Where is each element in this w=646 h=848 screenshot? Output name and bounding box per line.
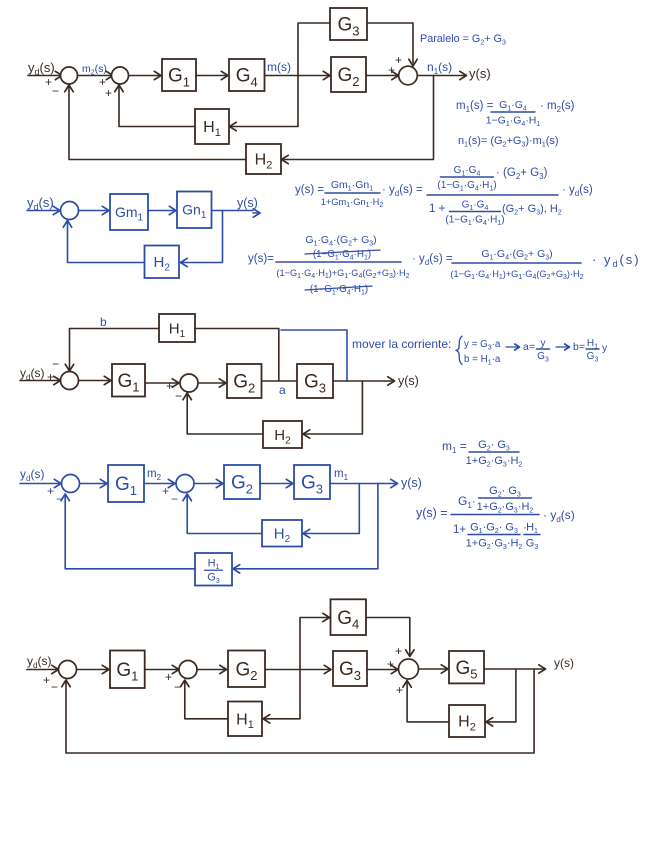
svg-text:Paralelo = G2​+ G3​: Paralelo = G2​+ G3​ [420, 33, 506, 47]
svg-text:−: − [51, 680, 58, 694]
svg-text:y: y [541, 338, 546, 349]
svg-text:y(s): y(s) [401, 476, 422, 490]
svg-text:−: − [52, 84, 59, 98]
svg-text:n1​(s): n1​(s) [427, 60, 452, 76]
svg-text:−: − [171, 492, 178, 506]
svg-text:a: a [279, 383, 286, 397]
svg-text:+: + [105, 86, 112, 100]
svg-text:+: + [47, 484, 54, 498]
svg-text:+: + [396, 683, 403, 697]
svg-text:mover la corriente:: mover la corriente: [352, 337, 451, 351]
svg-text:· yd​(s) =: · yd​(s) = [412, 253, 453, 267]
svg-text:1+: 1+ [453, 524, 466, 536]
svg-text:a=: a= [523, 341, 535, 353]
svg-text:G2​· G3​: G2​· G3​ [489, 485, 521, 499]
svg-text:y(s) =: y(s) = [416, 506, 448, 520]
svg-text:m(s): m(s) [267, 60, 291, 74]
svg-text:+: + [395, 644, 402, 658]
svg-text:G1​·G4​: G1​·G4​ [454, 165, 481, 177]
svg-text:b=: b= [573, 341, 585, 353]
svg-text:+: + [166, 379, 173, 393]
svg-text:m1​(s) =: m1​(s) = [456, 100, 494, 114]
svg-text:· yd​(s) =: · yd​(s) = [382, 184, 423, 198]
svg-text:+: + [387, 657, 394, 671]
svg-text:y(s) =: y(s) = [295, 184, 324, 196]
svg-text:G1​·G2​· G3​: G1​·G2​· G3​ [470, 522, 518, 536]
svg-text:(G2​+ G3​), H2​: (G2​+ G3​), H2​ [502, 203, 562, 217]
svg-text:yd​(s): yd​(s) [27, 195, 54, 212]
svg-text:G1​·G4​: G1​·G4​ [499, 99, 527, 113]
svg-text:b = H1​·a: b = H1​·a [464, 354, 501, 366]
svg-text:+: + [43, 673, 50, 687]
svg-text:1+G2​·G3​·H2​: 1+G2​·G3​·H2​ [466, 455, 523, 469]
svg-text:1 +: 1 + [429, 203, 446, 215]
svg-text:y(s): y(s) [554, 656, 574, 670]
svg-text:Gm1​·Gn1​: Gm1​·Gn1​ [331, 179, 373, 193]
svg-text:yd​(s): yd​(s) [27, 654, 51, 670]
svg-text:(1−G1​·G4​·H1​): (1−G1​·G4​·H1​) [445, 215, 504, 227]
svg-text:y(s): y(s) [398, 374, 419, 388]
svg-text:(1−G1​·G4​·H1​): (1−G1​·G4​·H1​) [310, 284, 368, 296]
svg-text:+: + [165, 670, 172, 684]
svg-text:−: − [52, 357, 59, 371]
svg-text:1−G1​·G4​·H1​: 1−G1​·G4​·H1​ [486, 115, 541, 129]
svg-text:y: y [602, 342, 608, 354]
svg-text:+: + [395, 53, 402, 67]
svg-text:y = G3​·a: y = G3​·a [464, 339, 501, 351]
svg-text:G2​· G3​: G2​· G3​ [478, 439, 510, 453]
svg-text:yd​(s): yd​(s) [20, 366, 44, 382]
svg-text:(1−G1​·G4​·H1​): (1−G1​·G4​·H1​) [437, 180, 496, 192]
svg-text:y(s): y(s) [469, 66, 491, 81]
svg-text:y(s)=: y(s)= [248, 253, 274, 265]
svg-text:b: b [100, 315, 107, 329]
svg-text:y(s): y(s) [237, 196, 258, 210]
svg-text:+: + [45, 75, 52, 89]
svg-text:+: + [162, 484, 169, 498]
svg-text:yd​(s): yd​(s) [20, 467, 44, 483]
svg-text:1+G2​·G3​·H2​: 1+G2​·G3​·H2​ [466, 538, 523, 552]
svg-text:G1​·G4​: G1​·G4​ [462, 200, 489, 212]
svg-text:1+G2​·G3​·H2​: 1+G2​·G3​·H2​ [477, 501, 534, 515]
svg-text:G1​·: G1​· [458, 494, 476, 510]
svg-text:+: + [388, 63, 395, 77]
svg-text:+: + [47, 370, 54, 384]
svg-text:−: − [175, 389, 182, 403]
